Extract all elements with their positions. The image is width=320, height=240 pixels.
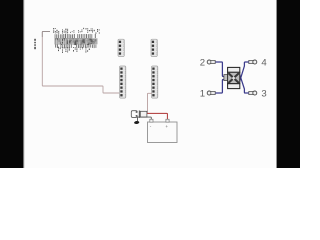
connector J4 — [152, 66, 158, 98]
battery BT1 — [148, 119, 178, 142]
wire pin3 to motor top-right (crossing) — [238, 70, 248, 93]
svg-text:1: 1 — [200, 88, 205, 99]
pin 2 terminal — [207, 60, 211, 64]
wire pin4 to motor bottom-right (crossing) — [238, 62, 248, 86]
svg-text:3: 3 — [261, 88, 266, 99]
motor M1 — [224, 67, 240, 88]
connector J1 — [118, 39, 124, 56]
wire battery - to blob (dark) — [138, 117, 152, 121]
pin 4 terminal — [249, 60, 253, 63]
wire fuse to battery + (red) — [147, 113, 167, 122]
svg-text:2: 2 — [200, 57, 205, 68]
wire J4 to junction (pale red, thin) — [148, 93, 152, 113]
svg-text:+: + — [165, 124, 168, 129]
left letterbox bar — [0, 0, 23, 168]
wire pin1 to motor (indigo) — [215, 80, 225, 94]
vertical label left of U1 — [34, 39, 36, 49]
pin 1 terminal — [207, 91, 211, 95]
pin 3 terminal — [249, 91, 253, 94]
wire U1 to connector J3 (pale red) — [42, 32, 119, 94]
right letterbox bar — [277, 0, 300, 168]
connector J2 — [151, 39, 157, 56]
svg-text:4: 4 — [261, 57, 267, 68]
power plug / fuse P1 — [131, 111, 147, 118]
microcontroller U1 — [53, 28, 100, 53]
wire pin2 to motor (indigo) — [215, 62, 225, 77]
connector J3 — [120, 66, 126, 98]
terminal blob — [134, 121, 140, 125]
